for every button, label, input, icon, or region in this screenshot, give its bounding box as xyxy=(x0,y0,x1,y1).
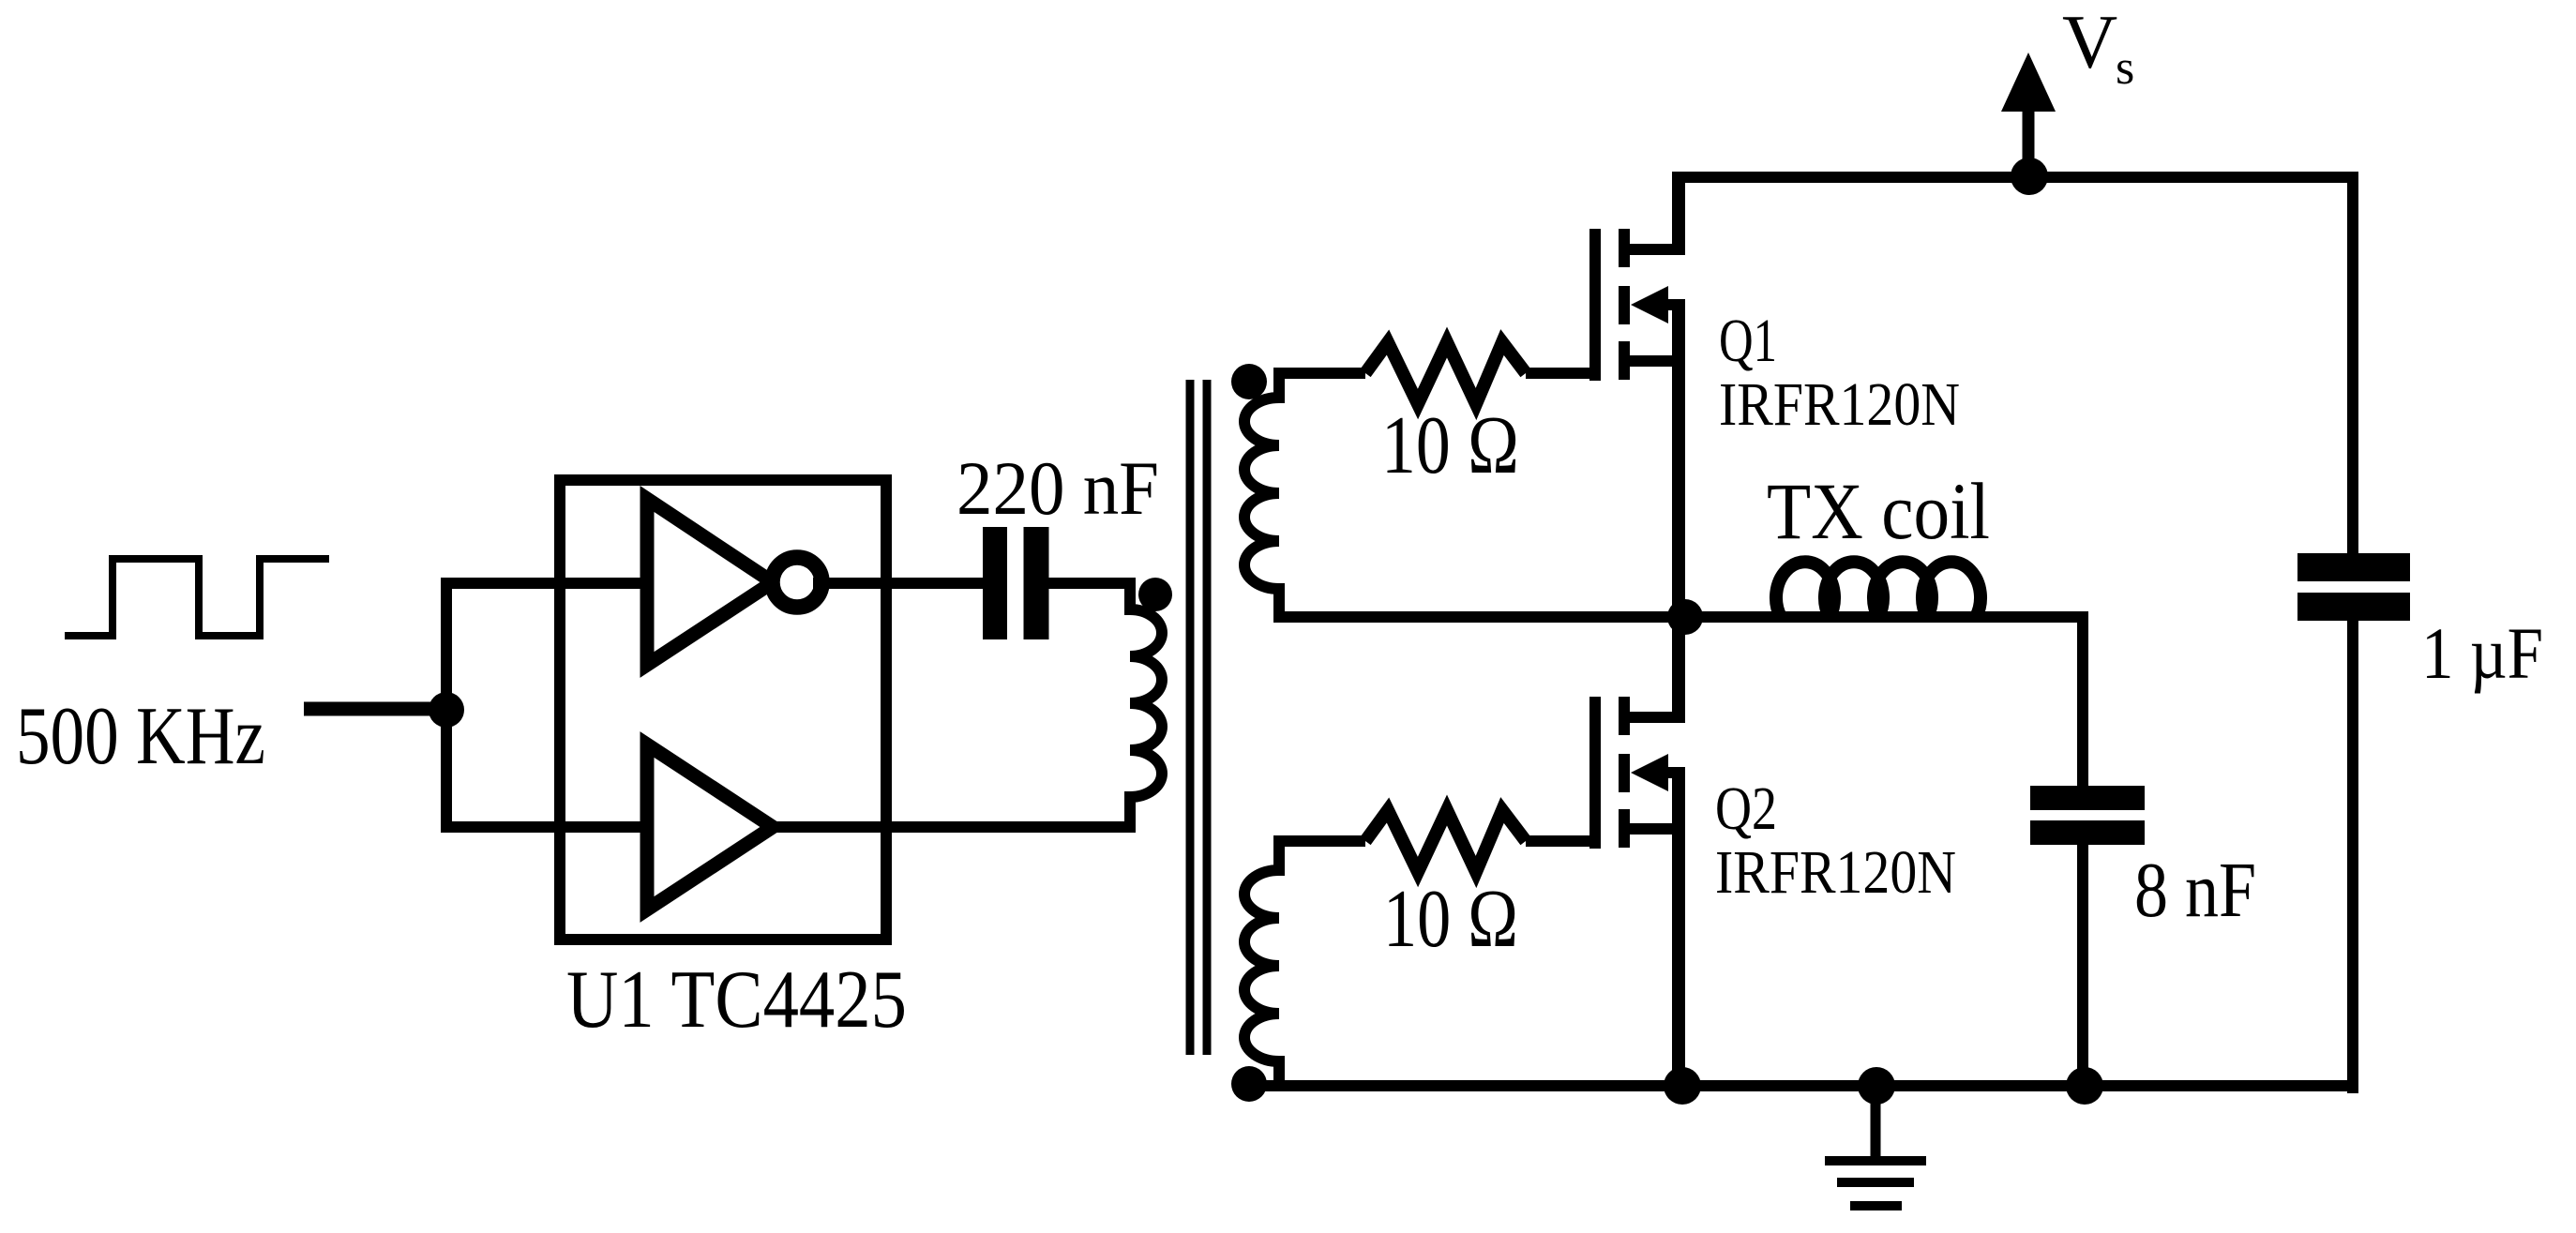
node Q2 source on rail xyxy=(1664,1067,1701,1105)
wire bottom rail ground net xyxy=(1249,1080,2358,1091)
svg-text:10 Ω: 10 Ω xyxy=(1381,400,1519,491)
svg-text:s: s xyxy=(2116,41,2134,95)
svg-text:1 µF: 1 µF xyxy=(2421,612,2543,694)
svg-text:Q1: Q1 xyxy=(1719,307,1777,375)
wire right vertical top (to 1uF) xyxy=(2347,172,2358,555)
wire top rail Vs net xyxy=(1673,172,2358,183)
inverter U1A triangle xyxy=(647,499,773,665)
transformer core line 2 xyxy=(1203,380,1212,1055)
transformer T1 secondary 1 winding and wires xyxy=(1244,373,1673,617)
resistor R2 10 ohm xyxy=(1365,810,1526,872)
power Vs arrow xyxy=(2023,108,2035,183)
svg-text:500 KHz: 500 KHz xyxy=(16,691,265,782)
node 8nF on rail xyxy=(2066,1067,2103,1105)
wire R2 to Q2 gate xyxy=(1526,835,1595,847)
svg-text:220 nF: 220 nF xyxy=(957,445,1159,531)
node ground stem on rail xyxy=(1858,1067,1895,1105)
transformer T1 secondary 2 winding and wires xyxy=(1244,841,1365,1086)
capacitor C1 220 nF plate left xyxy=(983,527,1007,639)
wire to inverter A input xyxy=(443,578,647,589)
svg-text:IRFR120N: IRFR120N xyxy=(1715,838,1956,907)
polarity dot secondary 2 xyxy=(1231,1066,1267,1102)
polarity dot primary xyxy=(1138,578,1172,611)
wire input xyxy=(304,702,446,716)
resistor R1 10 ohm xyxy=(1365,342,1526,404)
node Vs junction xyxy=(2011,158,2048,195)
inductor TX coil xyxy=(1776,562,1981,617)
inverter U1A bubble xyxy=(773,558,822,608)
svg-text:V: V xyxy=(2062,0,2117,84)
wire 8nF to ground rail xyxy=(2077,845,2088,1093)
svg-text:U1 TC4425: U1 TC4425 xyxy=(566,955,907,1045)
wire TX coil to 8nF xyxy=(1973,617,2083,791)
wire to buffer B input xyxy=(443,821,647,833)
capacitor C2 8 nF plate bottom xyxy=(2030,820,2145,845)
svg-text:Q2: Q2 xyxy=(1715,774,1777,843)
square wave input symbol xyxy=(65,559,329,636)
ground xyxy=(1825,1086,1926,1206)
svg-text:IRFR120N: IRFR120N xyxy=(1719,370,1960,439)
svg-text:TX coil: TX coil xyxy=(1767,466,1990,556)
wire right vertical bottom (1uF to ground rail) xyxy=(2347,621,2358,1093)
transistor Q1 IRFR120N xyxy=(1595,172,1684,623)
capacitor C2 8 nF plate top xyxy=(2030,786,2145,810)
capacitor C3 1 uF plate top xyxy=(2297,553,2410,581)
buffer U1B triangle xyxy=(647,744,773,910)
wire R1 to Q1 gate xyxy=(1526,368,1595,379)
svg-text:8 nF: 8 nF xyxy=(2134,847,2256,934)
op-amp U1 box TC4425 xyxy=(560,480,886,940)
wire input branch vertical xyxy=(441,578,452,833)
transformer core line 1 xyxy=(1186,380,1195,1055)
polarity dot secondary 1 xyxy=(1231,364,1267,399)
svg-text:10 Ω: 10 Ω xyxy=(1383,874,1518,965)
transistor Q2 IRFR120N xyxy=(1595,611,1684,1093)
node mid (switching node) xyxy=(1667,599,1703,635)
wire mid node to TX coil xyxy=(1679,611,1782,623)
node input junction xyxy=(429,692,464,728)
wire inverter A output xyxy=(813,578,995,589)
transformer T1 primary winding and wires xyxy=(773,583,1162,827)
capacitor C1 220 nF plate right xyxy=(1024,527,1049,639)
capacitor C3 1 uF plate bottom xyxy=(2297,593,2410,621)
